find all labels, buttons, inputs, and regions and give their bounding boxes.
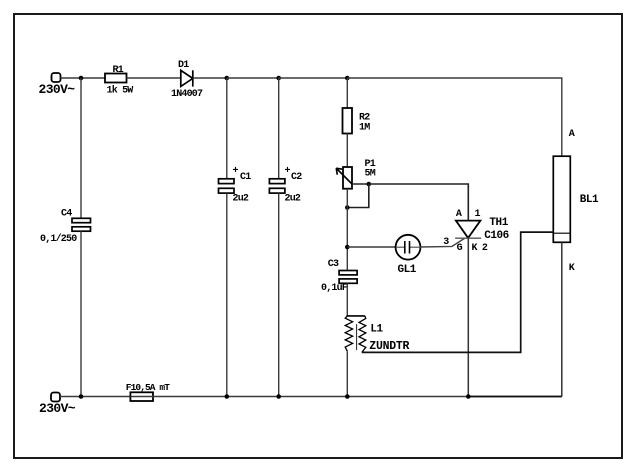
capacitor C2 2u2: [269, 166, 302, 204]
svg-text:BL1: BL1: [580, 194, 599, 206]
transformer L1 ZUNDTR: [345, 316, 409, 353]
svg-text:230V~: 230V~: [39, 82, 76, 97]
wire: node to GL1: [347, 246, 395, 248]
node: top-left junction: [79, 76, 84, 81]
terminal bottom 230V~: [51, 393, 60, 402]
wire: bottom rail terminal to fuse: [60, 396, 130, 398]
wire: L1 primary to bottom rail: [346, 351, 348, 396]
node: bottom-left junction: [79, 394, 84, 399]
diode D1 1N4007: [171, 60, 203, 100]
svg-text:D1: D1: [178, 60, 189, 71]
capacitor C3 0,1uF: [321, 259, 357, 294]
svg-text:F10,5A mT: F10,5A mT: [126, 382, 170, 393]
svg-text:0,1/250: 0,1/250: [40, 233, 77, 245]
wire: C2 branch top: [278, 78, 280, 179]
wire: GL1 to thyristor gate: [420, 238, 464, 247]
wire: R1 to D1: [127, 77, 181, 79]
svg-text:3: 3: [443, 237, 449, 248]
svg-text:GL1: GL1: [398, 264, 417, 276]
wire: C1 to bottom rail: [226, 193, 228, 396]
wire: top rail to BL1 anode: [347, 78, 562, 156]
wire: wiper node to thyristor anode: [369, 184, 469, 221]
node: C1 bottom junction: [225, 394, 230, 399]
svg-text:2: 2: [482, 243, 488, 254]
node: C2 top junction: [276, 76, 281, 81]
svg-text:2u2: 2u2: [285, 193, 301, 204]
svg-text:C3: C3: [328, 259, 339, 270]
svg-text:C2: C2: [291, 172, 302, 183]
svg-text:R1: R1: [113, 65, 124, 76]
capacitor C1 2u2: [219, 166, 252, 204]
svg-text:C1: C1: [240, 172, 251, 183]
node: P1 bottom junction: [345, 205, 350, 210]
wire: node C2 to node R2: [279, 77, 348, 79]
wire: fuse to bottom rail right: [130, 396, 561, 398]
wire: D1 to node C1: [193, 77, 227, 79]
node: L1 bottom junction: [345, 394, 350, 399]
fuse F1 0,5A mT: [126, 382, 170, 401]
wire: C3 to L1: [346, 283, 348, 316]
wire: C4 to bottom rail: [80, 231, 82, 396]
wire: bottom rail right segment: [468, 396, 562, 398]
fluorescent tube BL1: [553, 129, 599, 274]
capacitor C4 0,1/250: [40, 208, 91, 245]
wire: C2 to bottom rail: [278, 193, 280, 396]
svg-text:+: +: [285, 166, 291, 177]
wire: node to R2: [346, 78, 348, 108]
node: thyristor bottom junction: [466, 394, 471, 399]
svg-text:G: G: [457, 243, 463, 254]
wire: C1 branch top: [226, 78, 228, 179]
resistor R1: [105, 65, 133, 97]
terminal top 230V~: [52, 73, 61, 82]
wire: P1 to GL1 node: [346, 189, 348, 271]
svg-text:1M: 1M: [359, 122, 370, 133]
wire: BL1 cathode to bottom rail: [561, 242, 563, 396]
svg-text:L1: L1: [370, 324, 383, 336]
svg-text:230V~: 230V~: [39, 401, 76, 416]
resistor R2 1M: [343, 108, 371, 134]
svg-text:0,1uF: 0,1uF: [321, 283, 348, 294]
svg-text:+: +: [233, 166, 239, 177]
svg-text:C4: C4: [61, 208, 72, 219]
node: R2 top junction: [345, 76, 350, 81]
wire: left branch down to C4: [80, 78, 82, 218]
svg-text:A: A: [569, 129, 575, 140]
svg-text:1k 5W: 1k 5W: [107, 84, 134, 96]
potentiometer P1 5M: [336, 159, 376, 189]
node: wiper junction: [367, 182, 372, 187]
wire: wiper node down to P1 bottom: [347, 184, 369, 208]
node: C1 top junction: [225, 76, 230, 81]
svg-text:K: K: [472, 243, 478, 254]
wire top rail: terminal to R1: [61, 77, 106, 79]
svg-text:K: K: [569, 263, 575, 274]
svg-text:5M: 5M: [365, 169, 376, 180]
thyristor TH1 C106: [443, 209, 509, 254]
wire: thyristor cathode to bottom rail: [467, 238, 469, 396]
wire: R2 to P1: [346, 134, 348, 168]
svg-text:1: 1: [475, 209, 481, 220]
wire: P1 wiper stub to node: [352, 183, 369, 185]
wire: L1 secondary to BL1 heater tap: [362, 232, 554, 352]
svg-text:ZUNDTR: ZUNDTR: [369, 340, 409, 353]
svg-text:TH1: TH1: [489, 217, 508, 229]
node: C2 bottom junction: [276, 394, 281, 399]
wire: node C1 to node C2: [227, 77, 279, 79]
svg-text:C106: C106: [484, 230, 509, 242]
svg-text:1N4007: 1N4007: [171, 89, 203, 100]
glow lamp GL1: [396, 235, 421, 276]
node: GL1 junction: [345, 245, 350, 250]
svg-text:2u2: 2u2: [233, 193, 249, 204]
svg-text:A: A: [456, 209, 462, 220]
